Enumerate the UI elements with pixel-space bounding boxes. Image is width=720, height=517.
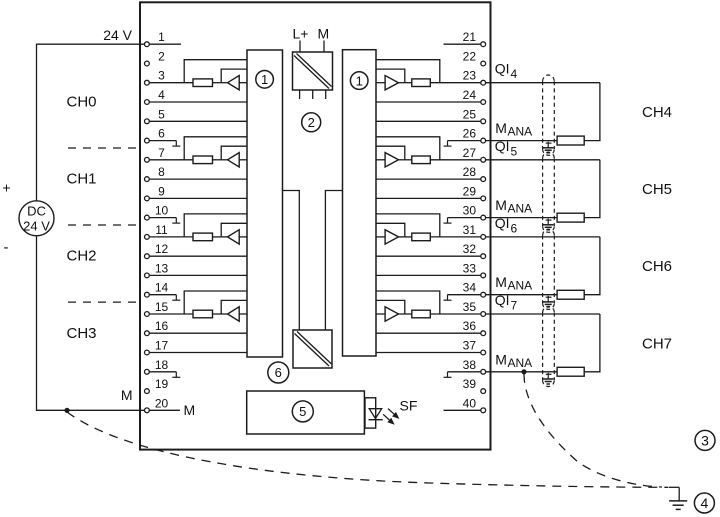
wire QI6 output (430, 236, 600, 238)
pin 21 terminal (481, 42, 486, 47)
svg-text:M: M (495, 120, 507, 136)
svg-text:6: 6 (511, 221, 518, 235)
svg-text:CH4: CH4 (642, 104, 672, 121)
svg-text:26: 26 (463, 127, 477, 141)
svg-text:7: 7 (511, 299, 518, 313)
label circle 1 left (256, 71, 274, 89)
sense wire outer (376, 214, 440, 237)
svg-text:4: 4 (158, 88, 165, 102)
pin 28 terminal (481, 177, 486, 182)
svg-text:36: 36 (463, 319, 477, 333)
sense wire inner (376, 223, 405, 237)
wire M return to pin 20 (37, 236, 181, 410)
svg-text:CH5: CH5 (642, 181, 672, 198)
pin 11 terminal (145, 235, 150, 240)
pin 2 terminal (145, 61, 150, 66)
svg-text:M: M (495, 197, 507, 213)
wire block to amp ch5 (376, 159, 385, 161)
svg-text:37: 37 (463, 339, 477, 353)
svg-text:34: 34 (463, 281, 477, 295)
op-amp ch5 (385, 153, 398, 167)
svg-text:32: 32 (463, 242, 477, 256)
op-amp ch4 (385, 76, 398, 90)
sense wire inner (376, 300, 405, 314)
op-amp ch3 (228, 307, 240, 321)
op-amp ch7 (385, 307, 398, 321)
pin 26 terminal (481, 138, 486, 143)
resistor ch2 (193, 233, 213, 241)
pin 32 terminal (481, 254, 486, 259)
svg-text:18: 18 (155, 358, 169, 372)
wire pin 21 stub (444, 43, 484, 45)
svg-text:CH6: CH6 (642, 258, 672, 275)
svg-text:38: 38 (463, 358, 477, 372)
sense wire inner (221, 69, 247, 83)
wire pin 17 to block (147, 352, 247, 354)
svg-text:ANA: ANA (508, 125, 533, 139)
svg-text:11: 11 (155, 223, 168, 237)
SF LED box (365, 398, 376, 428)
svg-text:24 V: 24 V (103, 27, 132, 43)
svg-text:CH0: CH0 (66, 94, 96, 111)
svg-text:7: 7 (158, 146, 165, 160)
wire pin 25 to block (376, 120, 483, 122)
resistor ch4 (412, 79, 431, 87)
svg-text:QI: QI (495, 215, 510, 231)
load resistor CH7 (557, 367, 584, 376)
svg-text:2: 2 (308, 115, 315, 130)
svg-text:QI: QI (495, 292, 510, 308)
wire pin 8 to block (147, 178, 247, 180)
svg-text:1: 1 (158, 30, 165, 44)
sense wire outer (184, 137, 247, 160)
wire resistor to amp (213, 236, 228, 238)
wire pin 18 stub hook (147, 371, 176, 373)
pin 14 terminal (145, 292, 150, 297)
svg-text:M: M (318, 26, 330, 42)
channel separator dashed (68, 224, 137, 226)
junction dot MANA CH7 (521, 369, 526, 374)
svg-text:40: 40 (463, 396, 477, 410)
wire pin 11 to DAC (147, 236, 193, 238)
pin 19 terminal (145, 389, 150, 394)
wire amp to block (239, 236, 247, 238)
svg-text:CH1: CH1 (66, 171, 96, 188)
svg-text:39: 39 (463, 377, 477, 391)
wire pin 7 to DAC (147, 159, 193, 161)
pin 6 terminal (145, 138, 150, 143)
cable shield CH5 (543, 152, 555, 158)
svg-text:ANA: ANA (508, 202, 533, 216)
op-amp ch6 (385, 230, 398, 244)
pin 12 terminal (145, 254, 150, 259)
svg-text:14: 14 (155, 281, 169, 295)
label circle 5 (292, 401, 313, 422)
channel separator dashed (68, 301, 137, 303)
pin 17 terminal (145, 350, 150, 355)
pin 27 terminal (481, 157, 486, 162)
svg-text:+: + (2, 180, 10, 196)
shield dashed wire from MANA CH7 (524, 374, 662, 487)
svg-text:4: 4 (701, 495, 709, 511)
wire block to amp ch7 (376, 313, 385, 315)
pin 29 terminal (481, 196, 486, 201)
pin 7 terminal (145, 157, 150, 162)
DC/DC converter block 2 (293, 52, 333, 90)
svg-text:21: 21 (463, 30, 477, 44)
wire pin 13 to block (147, 274, 247, 276)
wire pin 9 to block (147, 197, 247, 199)
svg-text:ANA: ANA (508, 356, 533, 370)
wire pin 28 to block (376, 178, 483, 180)
label circle 6 (268, 362, 289, 383)
load resistor CH5 (557, 213, 584, 222)
wire pin 10 stub hook (147, 217, 176, 219)
pin 5 terminal (145, 119, 150, 124)
svg-text:35: 35 (463, 300, 477, 314)
label circle 1 right (350, 72, 368, 90)
wire pin 3 to DAC (147, 82, 193, 84)
load resistor CH4 (557, 136, 584, 145)
svg-text:CH2: CH2 (66, 248, 96, 265)
wire amp to block (239, 159, 247, 161)
svg-text:L+: L+ (293, 26, 309, 42)
svg-text:5: 5 (511, 144, 518, 158)
wire pin 15 to DAC (147, 313, 193, 315)
cable shield CH4 (543, 75, 555, 81)
wire amp to block (239, 82, 247, 84)
pin 30 terminal (481, 215, 486, 220)
channel separator dashed (68, 147, 137, 149)
sense wire outer (376, 137, 440, 160)
pin 34 terminal (481, 292, 486, 297)
power source DC 24V (19, 201, 54, 236)
op-amp ch2 (228, 230, 240, 244)
load resistor CH6 (557, 290, 584, 299)
sense wire outer (184, 214, 247, 237)
svg-text:M: M (121, 387, 133, 403)
svg-text:23: 23 (463, 69, 477, 83)
svg-text:QI: QI (495, 138, 510, 154)
pin 9 terminal (145, 196, 150, 201)
wire resistor to amp (213, 82, 228, 84)
wire block to amp ch6 (376, 236, 385, 238)
pin 40 terminal (481, 408, 486, 413)
wire 24V supply to pin 1 (37, 44, 182, 201)
sense wire inner (221, 223, 247, 237)
wire pin 14 stub hook (147, 294, 176, 296)
earth ground symbol (669, 500, 687, 502)
svg-text:30: 30 (463, 204, 477, 218)
wire pin 32 to block (376, 255, 483, 257)
svg-text:31: 31 (463, 223, 477, 237)
wire pin 33 to block (376, 274, 483, 276)
pin 16 terminal (145, 331, 150, 336)
svg-text:27: 27 (463, 146, 477, 160)
sense wire inner (221, 300, 247, 314)
svg-text:1: 1 (261, 72, 268, 87)
output stage block U1 left (1) (247, 50, 283, 357)
svg-text:CH3: CH3 (66, 325, 96, 342)
svg-text:4: 4 (511, 67, 518, 81)
resistor ch5 (412, 156, 431, 164)
svg-text:25: 25 (463, 107, 477, 121)
converter diagonal (294, 56, 329, 89)
load loop CH5 (584, 160, 600, 218)
wire amp to resistor (399, 159, 412, 161)
resistor ch3 (193, 310, 213, 318)
svg-text:-: - (4, 239, 9, 256)
load loop CH7 (584, 314, 600, 372)
svg-text:2: 2 (158, 50, 165, 64)
pin 23 terminal (481, 80, 486, 85)
svg-text:SF: SF (400, 398, 418, 414)
converter bottom stubs (299, 90, 301, 99)
wire resistor to amp (213, 159, 228, 161)
svg-text:M: M (495, 351, 507, 367)
pin 20 terminal (145, 408, 150, 413)
junction dot M (64, 408, 69, 413)
wire QI7 output (430, 313, 600, 315)
svg-text:29: 29 (463, 184, 477, 198)
svg-text:24 V: 24 V (23, 219, 50, 234)
svg-text:15: 15 (155, 300, 169, 314)
wire QI4 output (430, 82, 600, 84)
sense wire outer (376, 291, 440, 314)
sense wire inner (376, 69, 405, 83)
wire pin 12 to block (147, 255, 247, 257)
pin 25 terminal (481, 119, 486, 124)
pin 37 terminal (481, 350, 486, 355)
wire pin 40 stub (444, 409, 484, 411)
wire QI5 output (430, 159, 600, 161)
pin 35 terminal (481, 312, 486, 317)
wire amp to block (239, 313, 247, 315)
label circle 4 (694, 493, 714, 513)
wire pin 5 to block (147, 120, 247, 122)
isolation transformer block 6 (293, 330, 332, 368)
sense wire outer (376, 60, 440, 83)
isolation transformer block 6 wires (283, 191, 300, 331)
svg-text:16: 16 (155, 319, 169, 333)
shield ground CH4 (546, 142, 552, 144)
sense wire outer (184, 60, 247, 83)
label circle 3 (695, 430, 715, 450)
SF LED diode (369, 409, 382, 419)
cable shield CH6 (543, 229, 555, 235)
svg-text:5: 5 (158, 107, 165, 121)
svg-text:5: 5 (299, 404, 306, 419)
svg-text:QI: QI (495, 61, 510, 77)
wire block to amp ch4 (376, 82, 385, 84)
load loop CH6 (584, 237, 600, 295)
wire pin 4 to block (147, 101, 247, 103)
svg-text:CH7: CH7 (642, 335, 672, 352)
wire MANA ch7 (448, 371, 558, 373)
svg-text:6: 6 (275, 365, 282, 380)
op-amp ch1 (228, 153, 240, 167)
svg-text:6: 6 (158, 127, 165, 141)
wire pin 16 to block (147, 332, 247, 334)
pin 36 terminal (481, 331, 486, 336)
pin 38 terminal (481, 369, 486, 374)
svg-text:19: 19 (155, 377, 169, 391)
svg-text:9: 9 (158, 184, 165, 198)
load loop CH4 (584, 83, 600, 141)
wire MANA ch4 (448, 140, 558, 142)
sense wire inner (376, 146, 405, 160)
shield ground CH6 (546, 296, 552, 298)
svg-text:8: 8 (158, 165, 165, 179)
resistor ch0 (193, 79, 213, 87)
svg-text:17: 17 (155, 339, 169, 353)
resistor ch7 (412, 310, 431, 318)
svg-text:20: 20 (155, 396, 169, 410)
svg-text:24: 24 (463, 88, 477, 102)
wire pin 36 to block (376, 332, 483, 334)
pin 10 terminal (145, 215, 150, 220)
pin 3 terminal (145, 80, 150, 85)
svg-text:3: 3 (158, 69, 165, 83)
SF LED arrows (383, 409, 398, 424)
pin 8 terminal (145, 177, 150, 182)
svg-text:12: 12 (155, 242, 169, 256)
svg-text:10: 10 (155, 204, 169, 218)
shield ground CH7 (546, 373, 552, 375)
shield ground CH5 (546, 219, 552, 221)
output stage block U1 right (1) (343, 50, 377, 356)
pin 33 terminal (481, 273, 486, 278)
sense wire outer (184, 291, 247, 314)
svg-text:M: M (495, 274, 507, 290)
pin 24 terminal (481, 100, 486, 105)
sense wire inner (221, 146, 247, 160)
pin 22 terminal (481, 61, 486, 66)
wire MANA ch5 (448, 217, 558, 219)
L+ stub (299, 41, 301, 53)
wire pin 6 stub hook (147, 140, 176, 142)
svg-text:13: 13 (155, 261, 169, 275)
cable shield CH7 (543, 306, 555, 312)
wire pin 24 to block (376, 101, 483, 103)
wire amp to resistor (399, 313, 412, 315)
svg-text:28: 28 (463, 165, 477, 179)
diagnostics block 5 (247, 391, 365, 434)
resistor ch6 (412, 233, 431, 241)
resistor ch1 (193, 156, 213, 164)
ground connection corner (669, 486, 680, 488)
svg-text:33: 33 (463, 261, 477, 275)
wire pin 29 to block (376, 197, 483, 199)
pin 31 terminal (481, 235, 486, 240)
pin 39 terminal (481, 389, 486, 394)
wire resistor to amp (213, 313, 228, 315)
svg-text:22: 22 (463, 50, 477, 64)
op-amp ch0 (228, 76, 240, 90)
wire amp to resistor (399, 82, 412, 84)
svg-text:3: 3 (701, 432, 709, 448)
M stub (323, 41, 325, 53)
pin 4 terminal (145, 100, 150, 105)
pin 1 terminal (145, 42, 150, 47)
svg-text:1: 1 (356, 73, 363, 88)
svg-text:DC: DC (27, 204, 46, 219)
svg-text:ANA: ANA (508, 279, 533, 293)
pin 13 terminal (145, 273, 150, 278)
wire MANA ch6 (448, 294, 558, 296)
pin 18 terminal (145, 369, 150, 374)
equipotential dashed wire from M junction (67, 412, 668, 487)
label circle 2 (302, 113, 321, 132)
wire pin 37 to block (376, 352, 483, 354)
svg-text:M: M (184, 402, 196, 418)
module outline (140, 2, 491, 449)
pin 15 terminal (145, 312, 150, 317)
wire amp to resistor (399, 236, 412, 238)
